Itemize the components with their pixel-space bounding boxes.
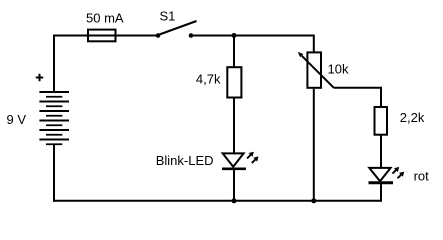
- resistor R1 4,7k: [227, 67, 241, 97]
- wire pot wiper to resistor R2: [334, 88, 381, 107]
- svg-text:S1: S1: [160, 8, 176, 23]
- node junction top: [232, 33, 237, 38]
- wire bottom rail: [53, 200, 381, 202]
- battery plus sign: [36, 74, 43, 81]
- svg-text:4,7k: 4,7k: [196, 72, 221, 87]
- wire pot bottom to bottom rail: [313, 89, 315, 202]
- svg-text:2,2k: 2,2k: [400, 110, 425, 125]
- potentiometer P1 10k: [298, 52, 334, 88]
- fuse F1: [88, 30, 116, 42]
- wire battery positive up and top rail to switch: [54, 36, 158, 93]
- battery BAT 9V: [39, 92, 69, 144]
- svg-text:10k: 10k: [328, 62, 349, 77]
- wire red LED to bottom rail: [380, 183, 382, 202]
- wire blink LED to bottom rail: [233, 169, 235, 201]
- LED rot: [369, 167, 405, 183]
- svg-text:Blink-LED: Blink-LED: [156, 153, 214, 168]
- switch S1: [156, 21, 197, 38]
- wire battery negative to bottom rail: [53, 144, 55, 202]
- node junction bottom blink branch: [232, 198, 237, 203]
- svg-text:rot: rot: [414, 168, 430, 183]
- resistor R2 2,2k: [375, 107, 388, 135]
- wire R1 to blink LED: [233, 98, 235, 155]
- LED blink: [222, 152, 259, 169]
- wire R2 to red LED: [380, 135, 382, 169]
- svg-text:50 mA: 50 mA: [86, 11, 124, 26]
- node junction bottom pot branch: [311, 198, 316, 203]
- wire junction down to resistor R1: [233, 36, 235, 68]
- svg-text:9 V: 9 V: [7, 112, 27, 127]
- wire switch to pot corner: [191, 36, 314, 53]
